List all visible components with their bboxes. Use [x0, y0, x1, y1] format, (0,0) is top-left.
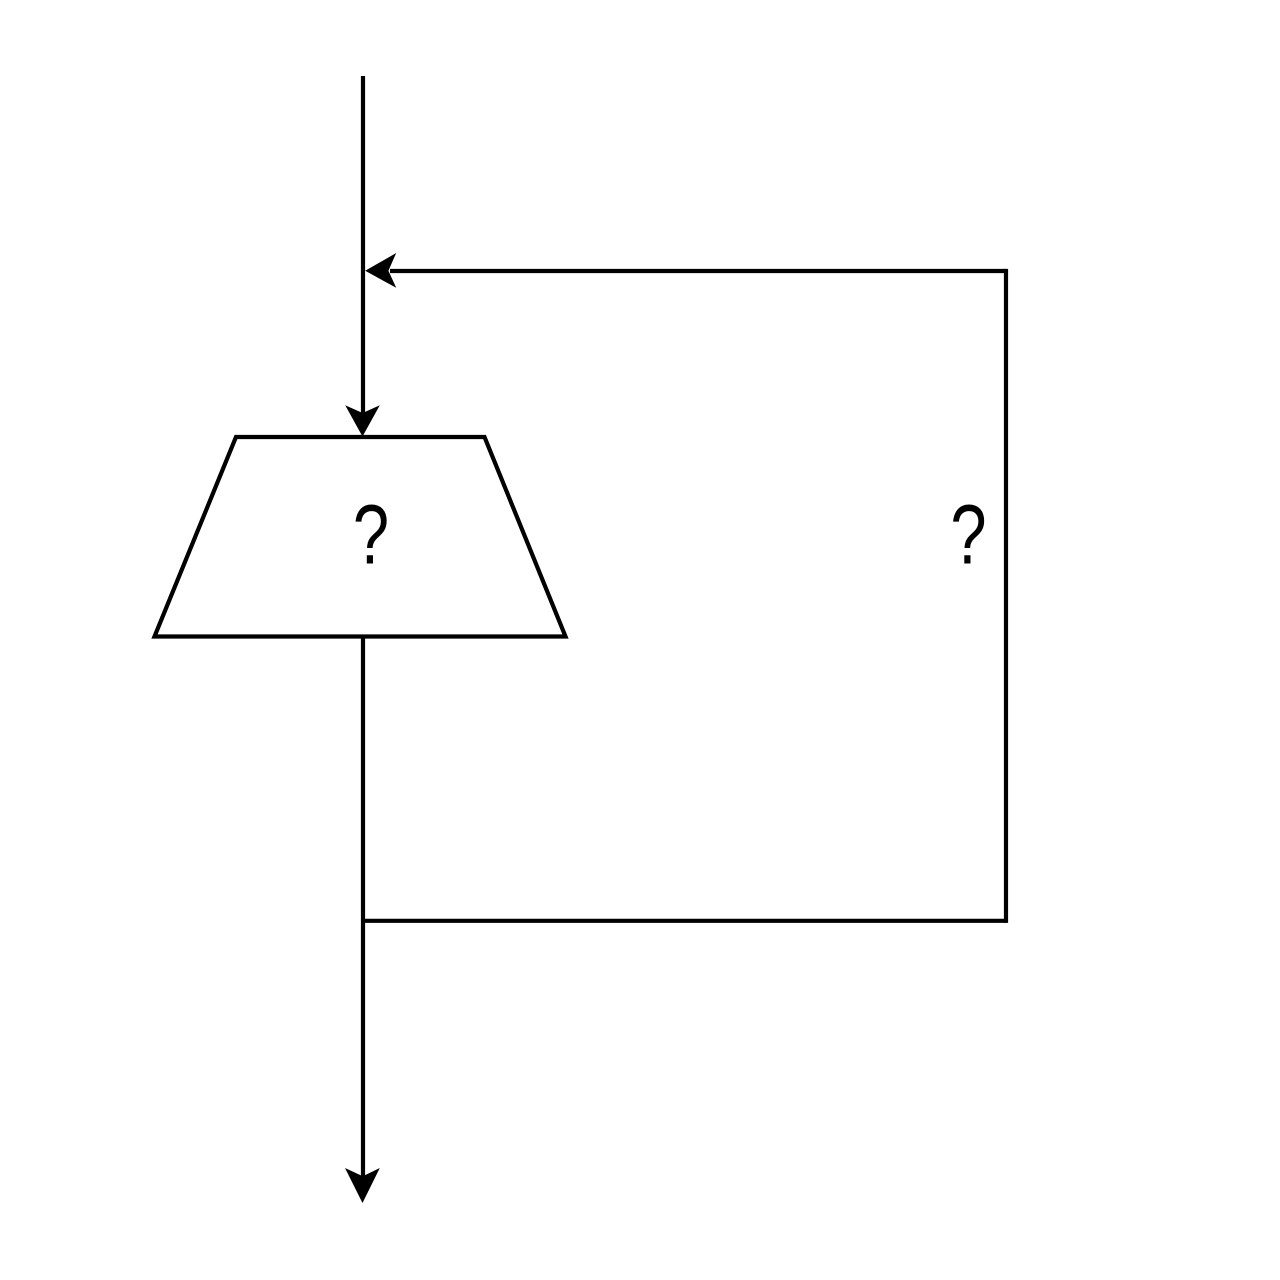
wire: loop right vertical: [1004, 269, 1008, 923]
wire: top vertical into trapezoid: [361, 76, 365, 420]
wire: loop top horizontal back to junction: [390, 269, 1006, 273]
wire: loop bottom horizontal: [363, 919, 1006, 923]
wire: vertical from trapezoid bottom to exit arrow: [361, 637, 365, 1183]
svg-text:?: ?: [353, 487, 389, 581]
arrowhead into trapezoid top: [345, 405, 380, 436]
arrowhead at junction (pointing left): [365, 253, 396, 288]
svg-text:?: ?: [950, 487, 986, 581]
exit arrowhead (bottom): [345, 1168, 380, 1203]
trapezoid node: [155, 437, 566, 637]
